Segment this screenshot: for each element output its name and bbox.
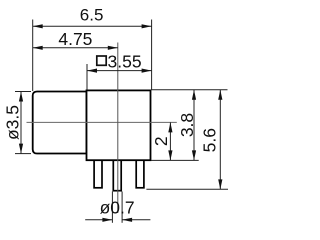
dimension diameter-3.5 line [19,92,23,154]
extension line right middle (y=160.3) [151,159,199,161]
horizontal centerline (barrel axis) [27,121,177,123]
extension line pin right edge (x=122.1) [121,192,123,223]
svg-text:ø3.5: ø3.5 [2,105,22,140]
vertical centerline (pin axis / 4.75 extension) [117,43,119,214]
svg-text:3.55: 3.55 [108,51,142,71]
dimension 2 line [168,122,172,160]
extension line body top-left (x=87) [86,64,88,90]
extension line right top (y=89.8) [151,89,228,91]
extension line right bottom (y=189.3) [146,188,228,190]
pin right [136,158,144,188]
pin left [94,158,102,188]
barrel (coax body, left) [33,92,87,154]
svg-text:2: 2 [151,136,171,146]
svg-text:ø0.7: ø0.7 [100,197,135,217]
extension line left (x=32.7) [32,20,34,92]
extension line pin left edge (x=112.4) [111,192,113,223]
dimension 5.6 line [218,90,222,190]
svg-text:4.75: 4.75 [58,29,92,49]
extension lines for diameter 3.5 [15,91,31,93]
extension line right (x=151.6) [151,20,153,90]
dimension 6.5 line [33,24,152,28]
pin center [113,158,121,191]
dimension square-3.55 line [87,69,152,73]
dimension 3.8 line [192,90,196,161]
main square body [87,90,151,160]
square symbol [97,56,106,65]
dimension diameter-0.7 arrows [85,218,150,222]
svg-text:3.8: 3.8 [177,113,197,137]
svg-text:6.5: 6.5 [80,6,104,25]
dimension 4.75 line [33,46,118,50]
svg-text:5.6: 5.6 [199,128,219,152]
